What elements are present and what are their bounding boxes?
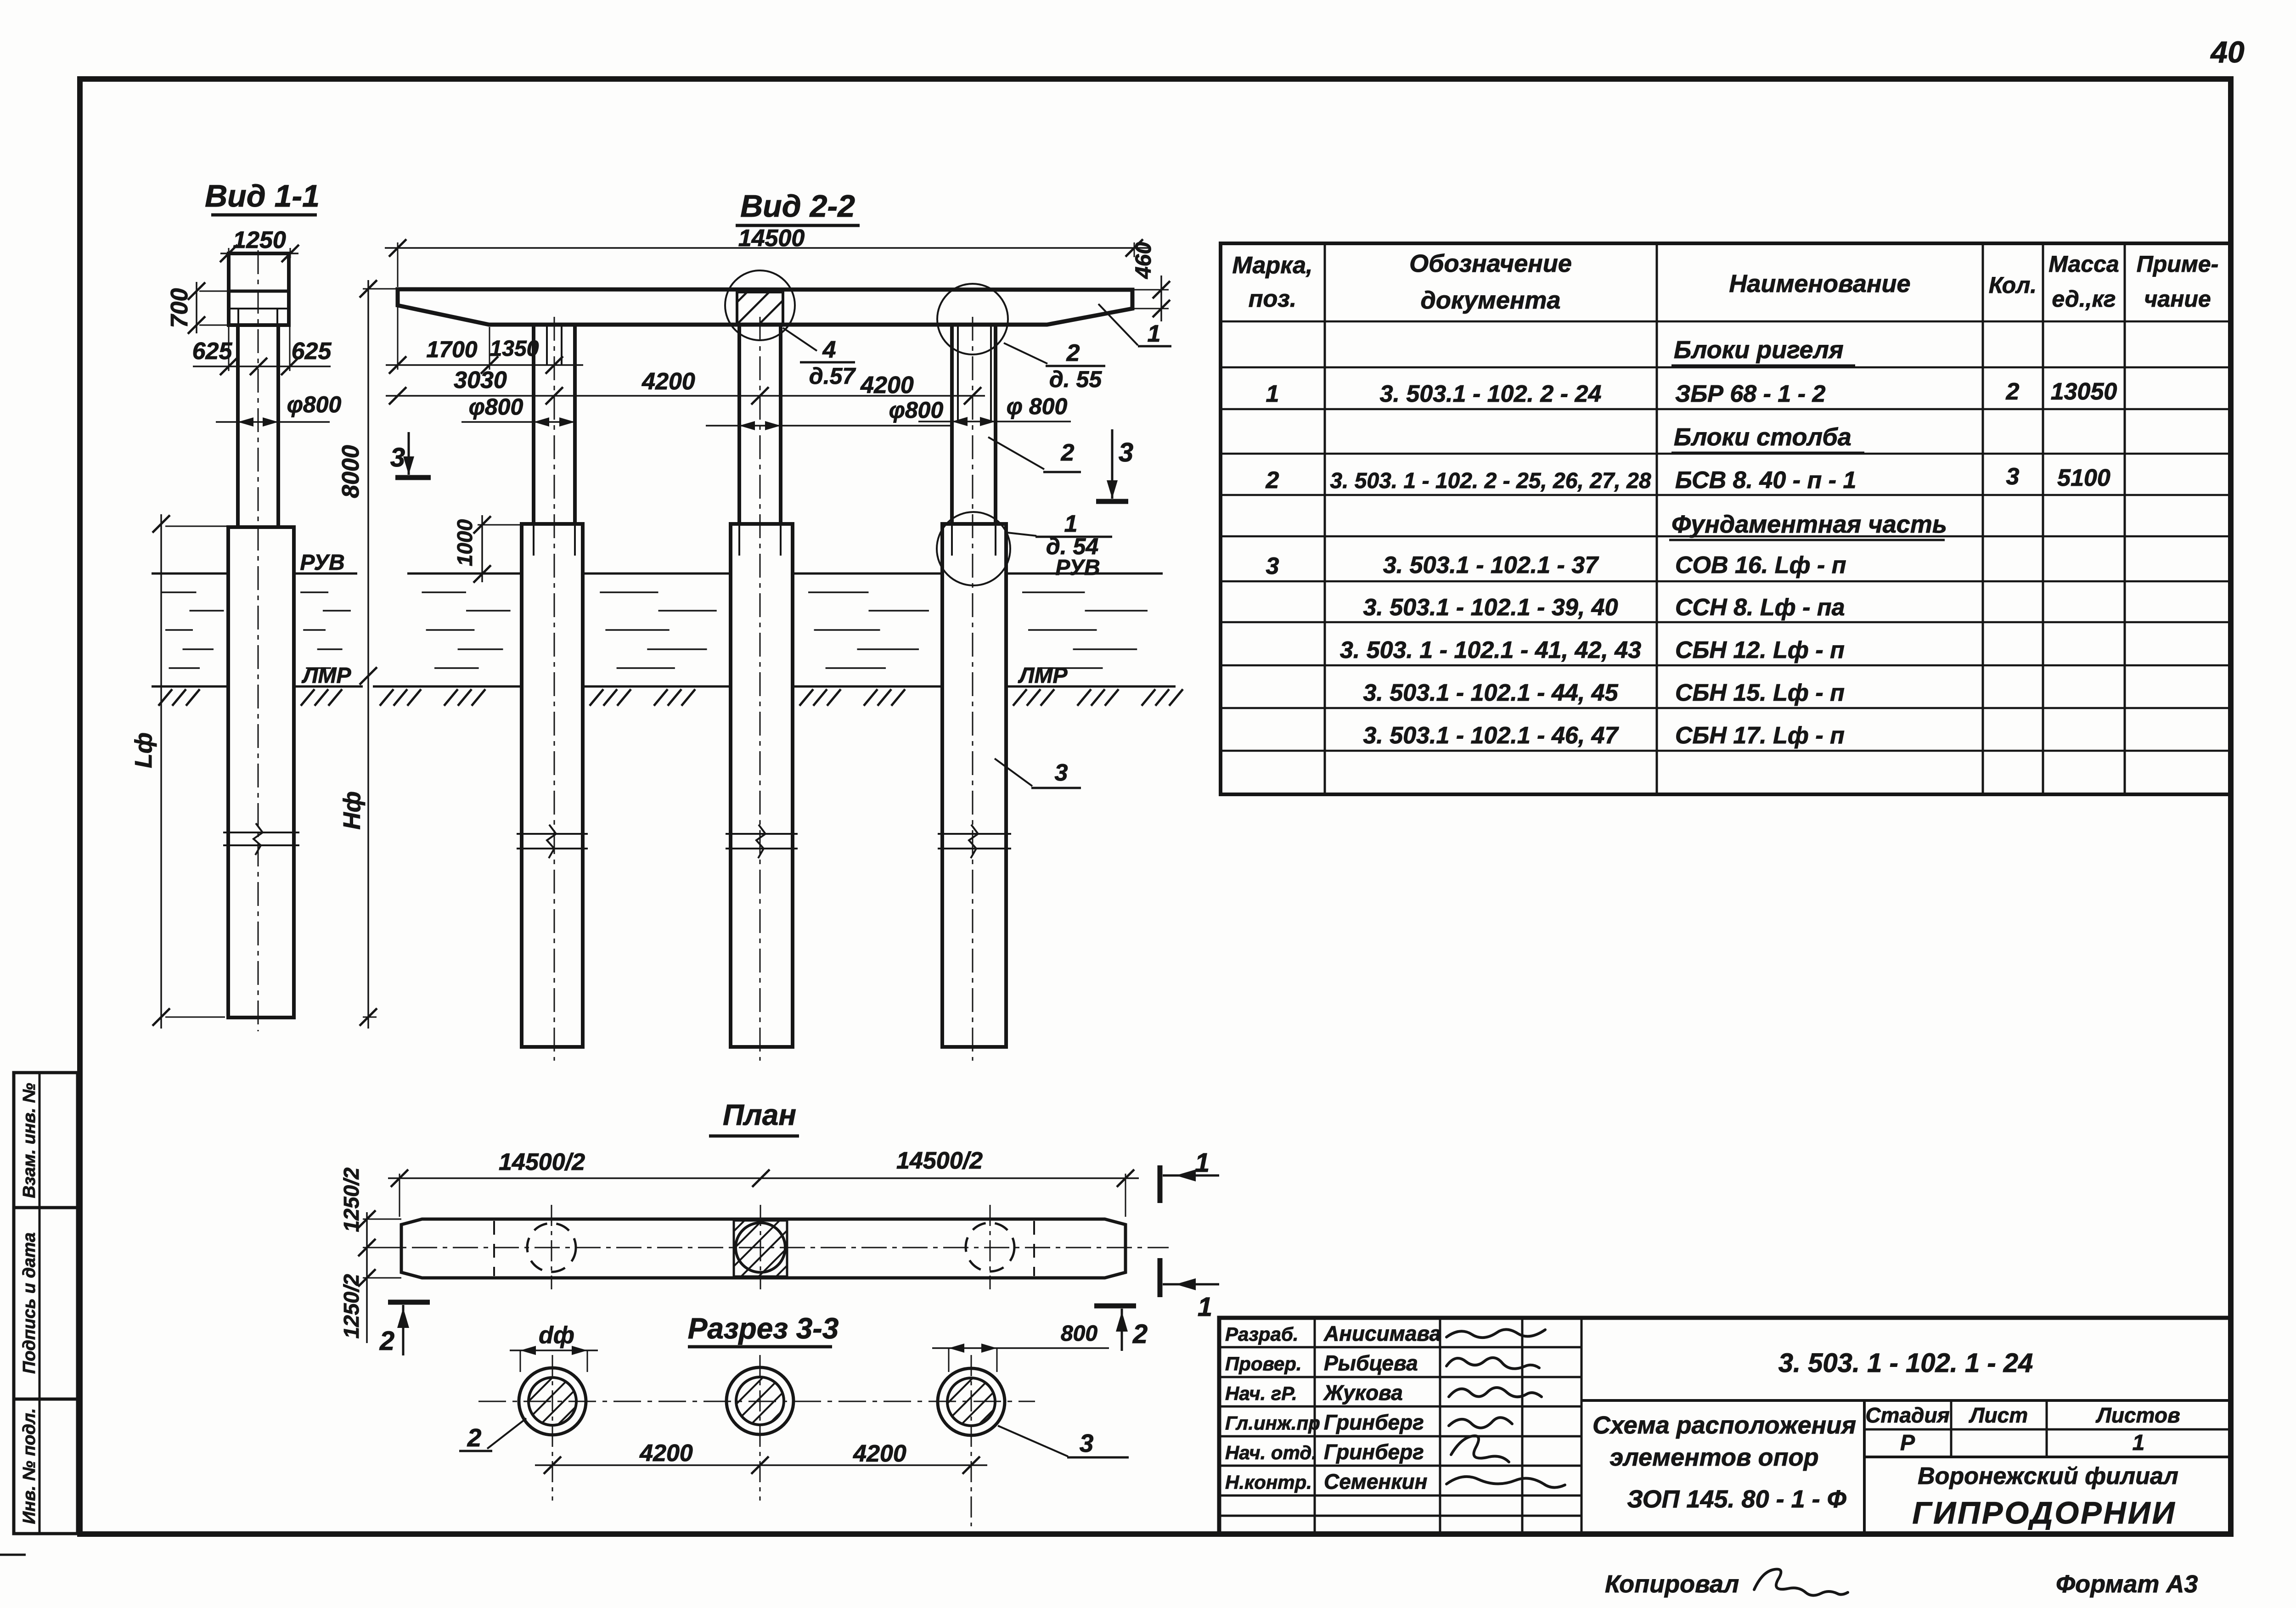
label Vzam inv xyxy=(20,1083,39,1198)
leader 2 to column 3 xyxy=(988,437,1081,472)
svg-text:1: 1 xyxy=(2133,1431,2145,1455)
svg-text:РУВ: РУВ xyxy=(300,551,344,575)
svg-text:1: 1 xyxy=(1195,1148,1210,1178)
plan horizontal centerline xyxy=(371,1247,1169,1248)
svg-text:3. 503.1 - 102. 2 - 24: 3. 503.1 - 102. 2 - 24 xyxy=(1380,381,1602,407)
table row 5: SBN 12 xyxy=(1340,637,1845,663)
svg-text:3: 3 xyxy=(390,443,405,472)
svg-text:14500/2: 14500/2 xyxy=(896,1147,983,1174)
svg-text:Копировал: Копировал xyxy=(1605,1570,1739,1598)
hatched bearing pad detail above column 2 xyxy=(737,292,783,324)
svg-text:документа: документа xyxy=(1420,287,1560,314)
svg-text:Анисимава: Анисимава xyxy=(1323,1321,1441,1345)
section mark 3 right xyxy=(1096,429,1133,501)
svg-text:Нач. отд.: Нач. отд. xyxy=(1225,1442,1317,1463)
svg-text:3. 503.1 - 102.1 - 46, 47: 3. 503.1 - 102.1 - 46, 47 xyxy=(1363,722,1619,749)
dimension Lf (view 1-1) xyxy=(130,514,228,1029)
svg-text:1250/2: 1250/2 xyxy=(339,1274,363,1338)
label RUV (view 2-2) xyxy=(1055,556,1100,580)
stadiya list listov headers xyxy=(1865,1403,2180,1455)
ground line LMR (view 1-1) xyxy=(152,686,363,706)
foundation 1 (view 2-2) xyxy=(522,524,583,1047)
svg-text:БСВ 8. 40 - п - 1: БСВ 8. 40 - п - 1 xyxy=(1675,467,1856,494)
svg-text:ЛМР: ЛМР xyxy=(302,663,352,688)
svg-text:Формат А3: Формат А3 xyxy=(2056,1570,2198,1598)
pile section circle 3 xyxy=(938,1355,1005,1526)
svg-text:1: 1 xyxy=(1198,1292,1212,1322)
svg-text:Рыбцева: Рыбцева xyxy=(1324,1351,1418,1375)
dimension Nf (foundation depth) xyxy=(339,680,377,1029)
plan column circle 3 (hidden) xyxy=(966,1205,1014,1289)
svg-text:4200: 4200 xyxy=(860,372,914,399)
water level line RUV (view 2-2) xyxy=(407,573,1163,575)
format A3 footer xyxy=(2056,1570,2198,1598)
kopiroval footer xyxy=(1605,1569,1848,1598)
svg-text:Обозначение: Обозначение xyxy=(1409,250,1572,277)
signatures scribbles xyxy=(1446,1329,1565,1487)
column shaft (view 1-1) xyxy=(238,325,278,527)
parts list table grid xyxy=(1221,243,2231,794)
svg-text:1000: 1000 xyxy=(453,519,477,566)
section mark 3 left xyxy=(390,432,431,478)
leader to detail 2 / d.55 xyxy=(1004,340,1105,392)
svg-text:СБН 12. Lф - п: СБН 12. Lф - п xyxy=(1675,637,1845,663)
svg-text:Гринберг: Гринберг xyxy=(1324,1440,1424,1464)
dimension 460 (girder end height) xyxy=(1131,242,1170,321)
svg-text:д.57: д.57 xyxy=(809,363,856,389)
table row 1: ZBR 68-1-2 xyxy=(1266,378,2117,407)
svg-text:СОВ 16. Lф - п: СОВ 16. Lф - п xyxy=(1675,552,1846,579)
svg-text:Масса: Масса xyxy=(2048,251,2119,277)
plan block joint dashed lines xyxy=(494,1221,1034,1276)
svg-text:чание: чание xyxy=(2144,286,2211,312)
dimension 800 (pile circle 3) xyxy=(932,1321,1109,1372)
svg-text:800: 800 xyxy=(1061,1321,1097,1346)
dimension 1250 (cap width) xyxy=(220,227,299,262)
table row: Fundamentnaya chast heading xyxy=(1669,511,1947,540)
dimension 625+625 xyxy=(192,327,332,375)
svg-text:3. 503. 1 - 102. 2 - 25, 26,: 3. 503. 1 - 102. 2 - 25, 26, 27, 28 xyxy=(1330,469,1651,493)
svg-text:ЗБР 68 - 1 - 2: ЗБР 68 - 1 - 2 xyxy=(1675,381,1826,407)
svg-text:3: 3 xyxy=(1119,438,1133,467)
svg-text:Стадия: Стадия xyxy=(1865,1403,1949,1427)
signature table texts xyxy=(1225,1321,1441,1494)
detail circle d.54 xyxy=(937,512,1010,585)
organization name xyxy=(1912,1463,2178,1530)
svg-text:Семенкин: Семенкин xyxy=(1324,1470,1427,1494)
dimension row 3030 / 4200 / 4200 xyxy=(386,367,985,405)
svg-text:Нф: Нф xyxy=(339,791,366,830)
svg-text:Вид 2-2: Вид 2-2 xyxy=(740,189,855,224)
leader 3 to foundation 3 xyxy=(995,759,1081,788)
leader to detail 1 / d.54 xyxy=(1007,511,1112,559)
svg-text:3: 3 xyxy=(2006,463,2020,490)
table row 7: SBN 17 xyxy=(1363,722,1844,749)
pier cap (rigel cross-section) xyxy=(229,253,289,325)
section mark 1 upper right xyxy=(1160,1148,1219,1203)
svg-text:13050: 13050 xyxy=(2051,378,2117,405)
svg-text:Lф: Lф xyxy=(130,732,157,768)
table row 4: SSN 8 xyxy=(1363,594,1845,621)
svg-text:1250/2: 1250/2 xyxy=(339,1167,363,1232)
svg-text:Вид 1-1: Вид 1-1 xyxy=(205,179,320,214)
svg-text:Наименование: Наименование xyxy=(1729,270,1910,298)
svg-text:625: 625 xyxy=(292,338,332,365)
svg-text:1: 1 xyxy=(1148,320,1161,347)
dimension phi800 column3 xyxy=(918,394,1071,426)
detail circle d.57 xyxy=(725,270,795,340)
foundation shaft (view 1-1) xyxy=(228,527,294,1018)
dimension 1250/2 + 1250/2 xyxy=(339,1167,401,1343)
svg-text:4200: 4200 xyxy=(639,1440,693,1467)
svg-text:Листов: Листов xyxy=(2095,1403,2180,1427)
dimension row 1700 / 1350 xyxy=(386,294,583,374)
svg-text:Гл.инж.пр: Гл.инж.пр xyxy=(1225,1412,1320,1434)
svg-text:Подпись и дата: Подпись и дата xyxy=(20,1232,39,1374)
svg-text:8000: 8000 xyxy=(338,445,364,498)
svg-text:2: 2 xyxy=(467,1423,482,1452)
section mark 1 lower right xyxy=(1160,1258,1219,1322)
svg-text:3. 503. 1 - 102. 1 - 24: 3. 503. 1 - 102. 1 - 24 xyxy=(1778,1348,2033,1378)
svg-text:φ800: φ800 xyxy=(889,397,944,423)
svg-text:2: 2 xyxy=(1132,1319,1148,1349)
column centerlines (view 2-2) xyxy=(554,317,973,1061)
svg-text:Разраб.: Разраб. xyxy=(1225,1323,1299,1345)
svg-text:Н.контр.: Н.контр. xyxy=(1225,1472,1312,1493)
label LMR (view 1-1) xyxy=(302,663,352,688)
water level line RUV (view 1-1) xyxy=(152,573,357,575)
label RUV (view 1-1) xyxy=(300,551,344,575)
dimension phi800 column1 xyxy=(461,394,575,427)
foundation 2 (view 2-2) xyxy=(731,524,793,1047)
svg-text:1350: 1350 xyxy=(490,337,539,361)
svg-text:Нач. гР.: Нач. гР. xyxy=(1225,1383,1297,1404)
svg-text:2: 2 xyxy=(1061,439,1075,466)
svg-text:2: 2 xyxy=(379,1326,394,1356)
svg-text:СБН 17. Lф - п: СБН 17. Lф - п xyxy=(1675,722,1845,749)
svg-text:3030: 3030 xyxy=(454,367,507,394)
svg-text:ССН 8. Lф - па: ССН 8. Lф - па xyxy=(1675,594,1845,621)
svg-text:поз.: поз. xyxy=(1249,286,1297,312)
drawing name xyxy=(1593,1411,1856,1513)
leader 1 to girder right end xyxy=(1098,304,1171,347)
svg-text:φ800: φ800 xyxy=(287,392,342,417)
view 1-1 title xyxy=(205,179,320,215)
section mark 2 right xyxy=(1094,1306,1148,1351)
svg-text:Провер.: Провер. xyxy=(1225,1353,1302,1375)
svg-text:3. 503. 1 - 102.1 - 41, 42,: 3. 503. 1 - 102.1 - 41, 42, 43 xyxy=(1340,637,1641,663)
svg-text:φ800: φ800 xyxy=(469,394,523,420)
plan column circle 1 (hidden) xyxy=(527,1205,576,1289)
view 2-2 title xyxy=(736,189,860,225)
table row 3: SOV 16 xyxy=(1266,552,1846,579)
detail circle d.55 xyxy=(937,284,1008,354)
svg-text:Гринберг: Гринберг xyxy=(1324,1411,1424,1434)
svg-text:РУВ: РУВ xyxy=(1055,556,1100,580)
pile section circle 2 xyxy=(726,1355,793,1501)
svg-text:3. 503.1 - 102.1 - 39, 40: 3. 503.1 - 102.1 - 39, 40 xyxy=(1363,594,1618,621)
svg-text:1250: 1250 xyxy=(233,227,286,253)
leader 3 to pile circle 3 xyxy=(998,1426,1129,1457)
title block signature grid xyxy=(1219,1318,1581,1534)
ground line LMR (view 2-2) xyxy=(373,686,1183,706)
water dashes (view 1-1 bays) xyxy=(162,592,351,668)
fold mark bottom left xyxy=(0,1554,26,1556)
svg-text:3: 3 xyxy=(1080,1429,1094,1457)
table row: Bloki rigelya heading xyxy=(1671,336,1855,365)
svg-text:СБН 15. Lф - п: СБН 15. Lф - п xyxy=(1675,680,1845,706)
svg-text:Кол.: Кол. xyxy=(1989,272,2037,298)
title block outer xyxy=(1219,1318,2231,1534)
girder plan outline xyxy=(401,1219,1125,1278)
svg-text:Фундаментная часть: Фундаментная часть xyxy=(1671,511,1947,538)
svg-text:1: 1 xyxy=(1266,381,1279,407)
label Podpis i data xyxy=(20,1232,39,1374)
foundation break symbols (view 2-2) xyxy=(517,825,1011,858)
pile section circle 1 xyxy=(519,1355,586,1501)
svg-text:3: 3 xyxy=(1055,759,1068,786)
svg-text:ЗОП 145. 80 - 1 - Ф: ЗОП 145. 80 - 1 - Ф xyxy=(1627,1485,1846,1513)
svg-text:Жукова: Жукова xyxy=(1323,1381,1403,1405)
svg-text:Взам. инв. №: Взам. инв. № xyxy=(20,1083,39,1198)
dimension 4200 / 4200 (section 3-3) xyxy=(535,1440,987,1474)
svg-text:625: 625 xyxy=(192,338,233,365)
section circles horizontal centerline xyxy=(478,1401,1035,1402)
svg-text:3: 3 xyxy=(1266,553,1279,579)
girder (crossbeam) outline xyxy=(398,289,1132,325)
column 2 (view 2-2) xyxy=(739,325,781,524)
svg-text:4200: 4200 xyxy=(853,1440,906,1467)
svg-text:4200: 4200 xyxy=(642,368,695,395)
svg-text:2: 2 xyxy=(1066,340,1080,366)
plan hatched joint square over column 2 xyxy=(734,1205,787,1289)
svg-text:План: План xyxy=(723,1098,796,1131)
title block right grid xyxy=(1581,1400,2231,1534)
svg-text:3. 503.1 - 102.1 - 44, 45: 3. 503.1 - 102.1 - 44, 45 xyxy=(1363,680,1618,706)
dimension phi800 column2 xyxy=(706,397,951,430)
svg-text:5100: 5100 xyxy=(2057,465,2110,491)
svg-text:Блоки ригеля: Блоки ригеля xyxy=(1674,336,1844,364)
section mark 2 left xyxy=(379,1302,430,1356)
table row 6: SBN 15 xyxy=(1363,680,1844,706)
dimension phi800 (view 1-1) xyxy=(216,392,341,427)
svg-text:Блоки столба: Блоки столба xyxy=(1674,423,1851,451)
svg-text:ЛМР: ЛМР xyxy=(1018,663,1068,688)
svg-text:dф: dф xyxy=(539,1322,574,1349)
svg-text:700: 700 xyxy=(166,288,193,328)
svg-text:Разрез 3-3: Разрез 3-3 xyxy=(688,1312,839,1345)
leader to detail 4 / d.57 xyxy=(783,328,856,389)
plan title xyxy=(709,1098,799,1136)
dimension 8000 (column height) xyxy=(338,280,398,685)
svg-text:14500: 14500 xyxy=(738,225,805,252)
table row: Bloki stolba heading xyxy=(1671,423,1864,453)
left margin stamp strip xyxy=(14,1073,78,1534)
svg-text:14500/2: 14500/2 xyxy=(499,1149,585,1175)
water dashes (view 2-2 bays) xyxy=(422,592,1148,668)
svg-text:3. 503.1 - 102.1 - 37: 3. 503.1 - 102.1 - 37 xyxy=(1383,552,1599,579)
dimension df xyxy=(510,1322,598,1372)
svg-text:460: 460 xyxy=(1131,242,1156,279)
column 3 (view 2-2) xyxy=(952,325,996,524)
foundation break symbol (view 1-1) xyxy=(223,823,299,855)
svg-text:Марка,: Марка, xyxy=(1232,252,1313,279)
svg-text:Лист: Лист xyxy=(1969,1403,2028,1427)
svg-text:2: 2 xyxy=(1266,467,1279,494)
column centerline (view 1-1) xyxy=(258,250,259,1031)
label Inv podl xyxy=(20,1408,39,1524)
svg-text:40: 40 xyxy=(2210,35,2245,69)
svg-text:4: 4 xyxy=(822,337,836,363)
sheet number 40 xyxy=(2210,35,2245,69)
svg-text:Схема расположения: Схема расположения xyxy=(1593,1411,1856,1439)
table row 2: BSV 8.40-p-1 xyxy=(1266,463,2110,494)
svg-text:2: 2 xyxy=(2006,378,2020,405)
leader 2 to pile circle 1 xyxy=(459,1418,526,1452)
column 1 (view 2-2) xyxy=(534,325,575,524)
svg-text:Воронежский филиал: Воронежский филиал xyxy=(1918,1463,2178,1490)
dimension 14500/2 + 14500/2 xyxy=(388,1147,1139,1217)
svg-text:Приме-: Приме- xyxy=(2137,251,2219,277)
svg-text:φ 800: φ 800 xyxy=(1007,394,1068,419)
document number xyxy=(1778,1348,2033,1378)
svg-text:ед.,кг: ед.,кг xyxy=(2052,286,2116,312)
svg-text:ГИПРОДОРНИИ: ГИПРОДОРНИИ xyxy=(1912,1496,2176,1530)
svg-text:Р: Р xyxy=(1900,1431,1915,1455)
dimension 14500 (girder length) xyxy=(385,225,1150,287)
dimension 1000 (foundation top above water) xyxy=(453,515,522,583)
svg-text:д. 55: д. 55 xyxy=(1049,366,1102,392)
section 3-3 title xyxy=(688,1312,839,1347)
svg-text:элементов опор: элементов опор xyxy=(1609,1444,1818,1471)
dimension 700 (cap height) xyxy=(166,282,229,334)
table header texts xyxy=(1232,250,2219,314)
svg-text:1700: 1700 xyxy=(426,337,477,362)
svg-text:Инв. № подл.: Инв. № подл. xyxy=(20,1408,39,1524)
label LMR (view 2-2) xyxy=(1018,663,1068,688)
foundation 3 (view 2-2) xyxy=(942,524,1006,1047)
